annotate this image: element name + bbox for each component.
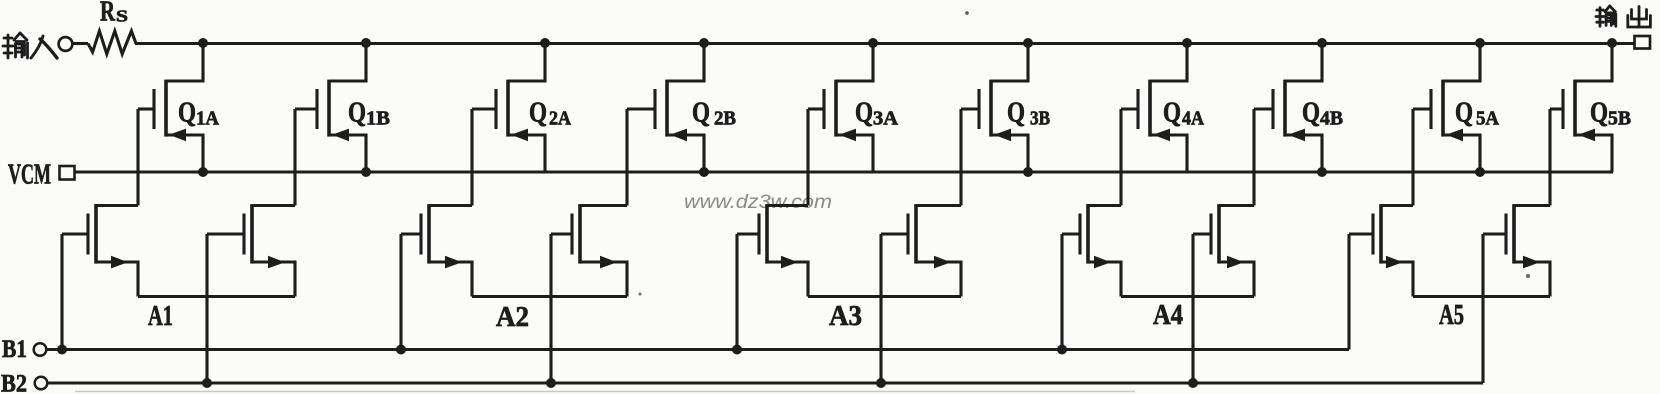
transistor Q3B — [961, 43, 1028, 172]
transistor A1 left — [62, 204, 138, 296]
svg-text:B2: B2 — [1, 371, 27, 394]
node Q3B drain junction — [1023, 38, 1033, 48]
node B1 junction at A4 — [1057, 345, 1067, 355]
wire Q3B gate riser (A3 right drain to upper gate) — [959, 109, 962, 206]
node Q3A drain junction — [868, 38, 878, 48]
wire A1 right gate to B2 — [205, 234, 208, 383]
svg-text:Q: Q — [1590, 97, 1608, 129]
wire top rail input to output — [135, 42, 1634, 45]
node Q4B source junction — [1317, 167, 1327, 177]
B1 terminal — [34, 343, 47, 356]
transistor A5 left — [1349, 204, 1413, 296]
transistor A3 left — [737, 204, 808, 296]
node Q4A drain junction — [1182, 38, 1192, 48]
wire input terminal to RS — [73, 42, 89, 45]
wire Q3A gate riser (A3 left drain to upper gate) — [806, 109, 809, 206]
node Q3B source junction — [1023, 167, 1033, 177]
node B2 junction at A3 — [876, 378, 886, 388]
svg-text:Q: Q — [1302, 97, 1320, 129]
wire B1 riser to A5 left gate — [1347, 234, 1350, 350]
svg-text:Q: Q — [529, 97, 547, 129]
transistor Q1B — [295, 43, 366, 172]
label Q2A — [529, 97, 571, 130]
node Q1B drain junction — [361, 38, 371, 48]
transistor Q3A — [808, 43, 873, 172]
svg-text:A4: A4 — [1153, 300, 1183, 331]
faint scan line bottom — [75, 391, 1135, 393]
transistor Q5A — [1413, 43, 1480, 172]
svg-text:3A: 3A — [873, 109, 898, 130]
label Q5A — [1455, 97, 1499, 130]
label Q3A — [855, 97, 898, 130]
svg-text:2B: 2B — [714, 109, 736, 130]
transistor A3 right — [881, 204, 961, 296]
transistor Q4A — [1121, 43, 1187, 172]
wire Q4A gate riser (A4 left drain to upper gate) — [1119, 109, 1122, 206]
resistor RS — [88, 31, 136, 54]
node B2 junction at A1 — [202, 378, 212, 388]
transistor A2 left — [401, 204, 472, 296]
wire VCM rail — [75, 170, 1614, 173]
svg-text:5B: 5B — [1608, 109, 1631, 130]
node Q1A source junction — [198, 167, 208, 177]
wire A2 left gate to B1 — [399, 234, 402, 350]
wire A3 left gate to B1 — [735, 234, 738, 350]
label Q4A — [1163, 97, 1204, 130]
B2 terminal — [35, 377, 48, 390]
node B1 junction at A3 — [732, 345, 742, 355]
speck — [1526, 274, 1530, 278]
transistor A5 right — [1483, 204, 1550, 296]
svg-text:5A: 5A — [1476, 109, 1499, 130]
node Q2A drain junction — [540, 38, 550, 48]
wire Q2B gate riser (A2 right drain to upper gate) — [625, 109, 628, 206]
svg-text:4A: 4A — [1182, 109, 1204, 130]
wire B2 riser to A5 right gate — [1481, 234, 1484, 383]
wire Q1B gate riser (A1 right drain to upper gate) — [293, 109, 296, 206]
svg-text:Q: Q — [1455, 97, 1473, 129]
transistor Q1A — [138, 43, 203, 172]
svg-text:3B: 3B — [1030, 109, 1050, 130]
wire B1 rail — [47, 348, 1350, 351]
VCM terminal — [60, 166, 75, 180]
svg-text:R: R — [100, 0, 116, 28]
wire Q4B gate riser (A4 right drain to upper gate) — [1252, 109, 1255, 206]
wire Q1A gate riser (A1 left drain to upper gate) — [136, 109, 139, 206]
node B2 junction at A2 — [546, 378, 556, 388]
transistor Q2B — [627, 43, 704, 172]
label Q2B — [692, 97, 736, 130]
node B1 junction at A2 — [396, 345, 406, 355]
svg-text:Q: Q — [692, 97, 710, 129]
svg-text:S: S — [116, 7, 128, 26]
node Q5B drain junction — [1607, 38, 1617, 48]
node Q5A source junction — [1475, 167, 1485, 177]
transistor A4 right — [1193, 204, 1254, 296]
wire A4 right gate to B2 — [1191, 234, 1194, 383]
svg-text:www.dz3w.com: www.dz3w.com — [684, 192, 832, 213]
wire Q5A gate riser (A5 left drain to upper gate) — [1411, 109, 1414, 206]
transistor A4 left — [1062, 204, 1121, 296]
input terminal — [59, 37, 73, 51]
node Q1A drain junction — [198, 38, 208, 48]
label Q4B — [1302, 97, 1343, 130]
label 输出 (output) — [1596, 6, 1650, 27]
wire A4 source coupling — [1121, 295, 1254, 298]
node B1 junction at A1 — [57, 345, 67, 355]
label 输入 (input) — [3, 33, 57, 58]
transistor Q5B — [1550, 43, 1612, 172]
speck — [638, 292, 641, 295]
wire A1 source coupling — [138, 295, 295, 298]
label Q1A — [178, 97, 219, 130]
wire Q5B gate riser (A5 right drain to upper gate) — [1548, 109, 1551, 206]
svg-text:Q: Q — [855, 97, 873, 129]
node Q5A drain junction — [1475, 38, 1485, 48]
transistor A1 right — [207, 204, 295, 296]
transistor Q4B — [1254, 43, 1322, 172]
node Q2B source junction — [699, 167, 709, 177]
node B2 junction at A4 — [1188, 378, 1198, 388]
svg-text:A5: A5 — [1439, 300, 1464, 331]
svg-text:2A: 2A — [549, 109, 571, 130]
svg-text:VCM: VCM — [8, 160, 51, 191]
wire A2 source coupling — [472, 295, 627, 298]
wire A2 right gate to B2 — [549, 234, 552, 383]
svg-text:1A: 1A — [196, 109, 219, 130]
node Q4B drain junction — [1317, 38, 1327, 48]
svg-text:Q: Q — [178, 97, 196, 129]
label Q3B — [1007, 97, 1050, 130]
svg-text:A3: A3 — [829, 301, 862, 332]
wire B2 rail — [48, 381, 1484, 384]
svg-text:Q: Q — [1007, 97, 1025, 129]
node Q2B drain junction — [699, 38, 709, 48]
output terminal — [1635, 36, 1651, 49]
svg-text:Q: Q — [1163, 97, 1181, 129]
label Q5B — [1590, 97, 1631, 130]
svg-text:A1: A1 — [148, 301, 173, 332]
svg-text:B1: B1 — [2, 336, 27, 363]
svg-text:A2: A2 — [496, 302, 529, 333]
node Q1B source junction — [361, 167, 371, 177]
svg-text:4B: 4B — [1320, 109, 1343, 130]
wire A3 source coupling — [808, 295, 961, 298]
wire Q2A gate riser (A2 left drain to upper gate) — [470, 109, 473, 206]
svg-text:Q: Q — [348, 97, 366, 129]
label Q1B — [348, 97, 390, 130]
wire A1 left gate to B1 — [60, 234, 63, 350]
speck — [965, 11, 969, 15]
wire A4 left gate to B1 — [1060, 234, 1063, 350]
svg-text:1B: 1B — [366, 109, 390, 130]
transistor Q2A — [472, 43, 545, 172]
wire A5 source coupling — [1413, 295, 1550, 298]
transistor A2 right — [551, 204, 627, 296]
wire A3 right gate to B2 — [879, 234, 882, 383]
